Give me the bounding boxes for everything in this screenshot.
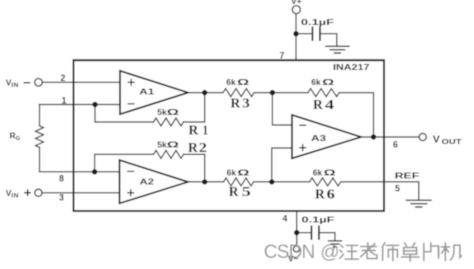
svg-text:A1: A1	[139, 86, 154, 96]
IC outline box INA217	[74, 60, 385, 211]
wire R2 feedback left leg	[95, 154, 154, 171]
svg-text:R: R	[188, 140, 199, 155]
A2 plus minus symbols	[127, 171, 134, 196]
shi1	[382, 243, 398, 261]
wire RG to pin 8	[40, 147, 122, 171]
wire junction to capacitor C2	[297, 232, 311, 234]
wire pin1 stub down to RG	[39, 105, 41, 126]
svg-text:R: R	[189, 123, 200, 138]
node A1 out	[202, 90, 207, 95]
svg-text:8: 8	[59, 174, 64, 184]
wire pin 3 input	[42, 192, 121, 194]
svg-text:6k: 6k	[227, 168, 237, 178]
output terminal VOUT	[419, 133, 426, 140]
wire R1 feedback left leg	[95, 105, 154, 123]
capacitor C1 0.1uF plates	[311, 28, 313, 41]
resistor RG zigzag	[36, 126, 44, 148]
ground symbol bottom	[329, 240, 342, 242]
wire A3 output to pin 6 VOUT	[361, 136, 419, 138]
resistor R2 5k zigzag	[154, 150, 184, 158]
op-amp A3	[292, 115, 361, 158]
svg-text:2: 2	[199, 140, 209, 155]
svg-text:2: 2	[61, 73, 66, 83]
wire C2 to ground	[320, 233, 335, 241]
capacitor C2 0.1uF plates	[310, 226, 312, 239]
svg-text:Ω: Ω	[322, 77, 335, 87]
svg-text:Ω: Ω	[237, 77, 250, 87]
wire R1 right leg to A1 output	[184, 93, 205, 122]
svg-text:6: 6	[393, 140, 398, 150]
svg-text:R: R	[313, 97, 324, 112]
wire pin 1 input	[40, 104, 122, 106]
resistor R5 6k zigzag	[224, 178, 254, 186]
svg-text:6k: 6k	[226, 77, 236, 87]
A3 plus minus symbols	[299, 125, 306, 151]
wang3	[340, 245, 359, 259]
input terminal VIN-	[35, 79, 43, 87]
dan1	[401, 243, 419, 261]
svg-text:Ω: Ω	[167, 139, 180, 149]
watermark chinese glyphs (drawn)	[340, 243, 461, 261]
svg-text:6: 6	[327, 186, 337, 201]
svg-text:REF: REF	[395, 170, 420, 180]
wire R3 to R4	[254, 92, 308, 94]
svg-text:5: 5	[242, 184, 253, 199]
wire R6 to REF pin 5 and down	[341, 182, 419, 200]
node A2 out	[202, 179, 207, 184]
node R5/R6	[269, 179, 274, 184]
node pin8/R2	[92, 169, 97, 174]
svg-text:V: V	[433, 133, 440, 145]
svg-text:4: 4	[283, 214, 288, 224]
pian4	[424, 243, 439, 261]
resistor R3 6k zigzag	[223, 89, 254, 97]
wire pin 4 down to V-	[296, 212, 298, 246]
svg-text:6k: 6k	[311, 77, 321, 87]
svg-text:Ω: Ω	[237, 168, 250, 178]
svg-text:R: R	[315, 186, 326, 201]
svg-text:V+: V+	[291, 0, 302, 6]
svg-text:5: 5	[395, 184, 400, 194]
svg-text:@: @	[320, 242, 339, 263]
wire R2 right leg to A2 output	[184, 154, 205, 182]
svg-text:CSDN: CSDN	[264, 242, 315, 263]
ji1	[441, 243, 461, 261]
svg-text:5k: 5k	[157, 139, 167, 149]
wire A1 output to R3	[188, 92, 223, 94]
svg-text:Ω: Ω	[324, 168, 337, 178]
svg-text:OUT: OUT	[442, 139, 463, 146]
op-amp A1	[120, 71, 188, 114]
svg-text:4: 4	[325, 97, 336, 112]
lao3	[361, 243, 377, 259]
svg-text:7: 7	[280, 50, 285, 60]
svg-text:3: 3	[242, 96, 251, 111]
wire R3R4 node down to A3 minus input	[272, 93, 292, 125]
svg-text:0.1µF: 0.1µF	[301, 17, 334, 27]
svg-text:R: R	[229, 184, 240, 199]
wire R4 right leg down to A3 output	[339, 93, 373, 137]
svg-text:0.1µF: 0.1µF	[302, 214, 335, 224]
svg-text:1: 1	[203, 123, 210, 138]
svg-text:3: 3	[59, 192, 64, 202]
wire A2 output to R5	[188, 181, 224, 183]
svg-text:A3: A3	[311, 133, 326, 143]
ground symbol REF	[406, 199, 431, 201]
ground symbol top	[326, 45, 349, 47]
wire R5R6 node up to A3 plus input	[272, 148, 292, 182]
svg-text:5k: 5k	[157, 107, 167, 117]
resistor R6 6k zigzag	[310, 178, 341, 186]
node R3/R4	[270, 90, 275, 95]
input terminal VIN+	[35, 189, 42, 196]
svg-text:INA217: INA217	[333, 62, 370, 72]
wire pin 2 input	[42, 81, 121, 83]
node A3 out/R4	[371, 134, 376, 139]
node pin4/C2	[294, 230, 299, 235]
resistor R4 6k zigzag	[308, 89, 339, 97]
terminal V+	[292, 6, 300, 14]
svg-text:R: R	[231, 96, 242, 111]
wire junction to capacitor C1	[296, 33, 311, 35]
node pin1/R1	[92, 102, 97, 107]
svg-text:Ω: Ω	[167, 107, 180, 117]
node pin7/C1	[293, 31, 298, 36]
A1 plus minus symbols	[128, 79, 135, 104]
svg-text:6k: 6k	[313, 168, 323, 178]
svg-text:A2: A2	[140, 177, 155, 187]
wire C1 to ground	[321, 34, 337, 46]
svg-text:1: 1	[62, 96, 67, 106]
resistor R1 5k zigzag	[154, 118, 184, 126]
wire V+ to pin 7	[295, 14, 297, 61]
op-amp A2	[120, 160, 189, 203]
terminal V-	[293, 246, 299, 252]
wire R5 to R6	[254, 181, 310, 183]
